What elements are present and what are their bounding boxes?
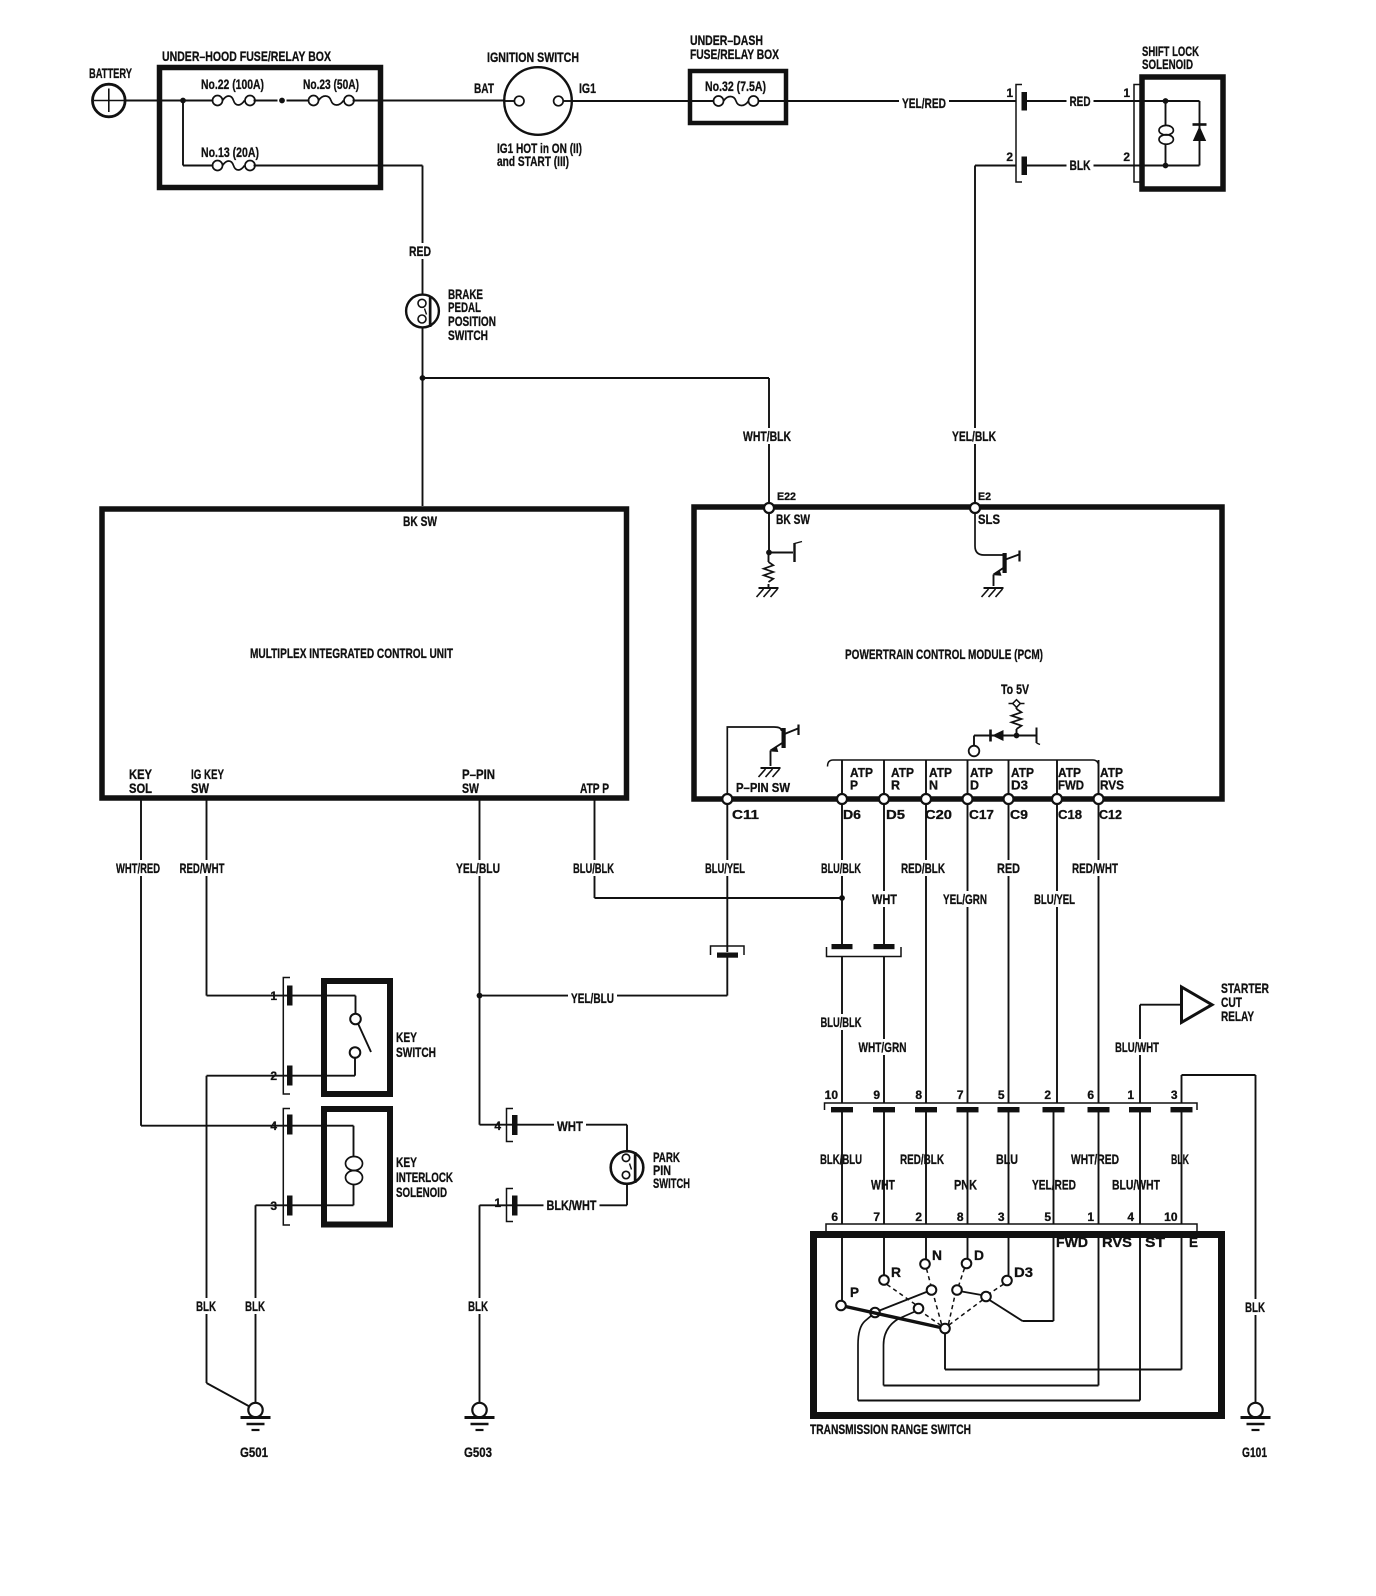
wire BLK/WHT <box>517 1184 627 1213</box>
connector bracket (key interlock) pins 4,3 <box>270 1109 292 1226</box>
wire YEL/BLU (P-PIN SW) <box>453 798 503 1125</box>
svg-text:RED/WHT: RED/WHT <box>1072 860 1118 876</box>
contact row2 e <box>981 1292 991 1302</box>
battery <box>89 65 132 117</box>
PCM pin C9 <box>1004 794 1029 822</box>
ground G503 <box>464 1403 495 1460</box>
wire battery to under-hood box <box>125 100 163 102</box>
svg-text:D3: D3 <box>1011 778 1028 793</box>
svg-text:1: 1 <box>1127 1088 1134 1102</box>
ground G101 <box>1241 1403 1271 1460</box>
contact row2 a <box>870 1308 880 1318</box>
svg-text:RED: RED <box>997 860 1020 876</box>
svg-text:BLU/WHT: BLU/WHT <box>1115 1039 1159 1055</box>
svg-text:D3: D3 <box>1014 1264 1033 1280</box>
svg-text:KEY: KEY <box>396 1154 417 1170</box>
solenoid coil L1 <box>1159 101 1173 166</box>
svg-text:RED/BLK: RED/BLK <box>901 860 945 876</box>
svg-text:10: 10 <box>825 1088 839 1102</box>
dashed link common-c <box>934 1295 942 1324</box>
svg-text:IG1: IG1 <box>579 80 596 96</box>
PCM pin E2 <box>970 491 1000 527</box>
wire pin 3 to contact D3 <box>1008 1231 1010 1275</box>
wire ATP bus <box>828 760 1099 767</box>
svg-text:4: 4 <box>494 1119 501 1133</box>
wire ATP P to bus <box>841 760 843 794</box>
fuse No.13 (20A) <box>183 101 259 171</box>
svg-text:BLK/WHT: BLK/WHT <box>547 1197 597 1213</box>
svg-text:C18: C18 <box>1058 807 1082 822</box>
internal tap (BK SW comparator) <box>769 542 802 563</box>
key interlock coil L2 <box>292 1126 363 1206</box>
svg-text:8: 8 <box>915 1088 922 1102</box>
svg-text:BLK: BLK <box>245 1298 265 1314</box>
wire solenoid pin 1 internal <box>1134 100 1166 102</box>
wire ST leg <box>858 1231 1140 1401</box>
wire pin 7 to contact R <box>883 1231 885 1275</box>
svg-text:BLK: BLK <box>1171 1151 1189 1167</box>
wire BLK (interlock to G501) <box>242 1205 288 1402</box>
ignition switch <box>474 49 596 169</box>
connector C1 (single, BLU/YEL) <box>711 946 745 957</box>
svg-text:INTERLOCK: INTERLOCK <box>396 1169 453 1185</box>
svg-text:10: 10 <box>1164 1210 1178 1224</box>
contact N <box>920 1247 942 1269</box>
dashed link N <box>927 1269 931 1285</box>
node (fuse box junction) <box>180 98 186 104</box>
svg-text:WHT: WHT <box>872 891 897 907</box>
svg-text:WHT/RED: WHT/RED <box>116 860 160 876</box>
contact common <box>940 1324 950 1334</box>
svg-text:6: 6 <box>1087 1088 1094 1102</box>
wire RED/BLK (C20) <box>897 804 948 1167</box>
svg-text:BAT: BAT <box>474 80 494 96</box>
svg-text:R: R <box>891 778 901 793</box>
svg-text:C20: C20 <box>925 807 952 822</box>
wire E leg <box>945 1231 1182 1370</box>
svg-text:C9: C9 <box>1010 807 1028 822</box>
svg-text:3: 3 <box>1171 1088 1178 1102</box>
svg-text:D: D <box>974 1247 984 1263</box>
link row2d to row2e <box>962 1292 982 1296</box>
svg-text:RELAY: RELAY <box>1221 1008 1254 1024</box>
wire BLK (park pin to G503) <box>465 1205 513 1402</box>
contact R <box>879 1264 901 1285</box>
svg-text:1: 1 <box>1087 1210 1094 1224</box>
svg-text:No.13 (20A): No.13 (20A) <box>201 144 259 160</box>
wire ignition switch IG1 to under-dash box <box>572 100 693 102</box>
svg-text:WHT/BLK: WHT/BLK <box>743 428 791 444</box>
svg-text:No.22 (100A): No.22 (100A) <box>201 76 264 92</box>
connector bracket (key switch) pins 1,2 <box>270 978 292 1095</box>
svg-text:BLU/BLK: BLU/BLK <box>821 1014 862 1030</box>
svg-text:D: D <box>970 778 979 793</box>
svg-text:UNDER–HOOD FUSE/RELAY BOX: UNDER–HOOD FUSE/RELAY BOX <box>162 48 331 64</box>
svg-text:RVS: RVS <box>1100 778 1124 793</box>
svg-text:ATP P: ATP P <box>580 780 609 796</box>
svg-text:BLK: BLK <box>1070 157 1091 173</box>
key interlock solenoid box <box>324 1109 453 1225</box>
PCM pin C20 <box>921 794 952 822</box>
svg-text:BLU/YEL: BLU/YEL <box>1034 891 1075 907</box>
svg-text:YEL/RED: YEL/RED <box>902 95 946 111</box>
connector C2 (pair, BLU/BLK & WHT) <box>827 945 902 957</box>
PCM pin C18 <box>1052 794 1082 822</box>
svg-text:WHT/RED: WHT/RED <box>1071 1151 1119 1167</box>
svg-text:C11: C11 <box>732 807 759 822</box>
connector (shift lock solenoid side) pins 1,2 <box>1123 85 1140 183</box>
connector bracket (park pin) pin 1 <box>494 1189 517 1222</box>
diode D2 (PCM internal) <box>974 730 1037 742</box>
svg-text:SWITCH: SWITCH <box>448 327 488 343</box>
svg-text:2: 2 <box>915 1210 922 1224</box>
dashed link R <box>887 1285 916 1305</box>
svg-text:YEL/BLU: YEL/BLU <box>456 860 500 876</box>
svg-text:1: 1 <box>1006 86 1013 100</box>
svg-text:POWERTRAIN CONTROL MODULE (PCM: POWERTRAIN CONTROL MODULE (PCM) <box>845 646 1043 662</box>
svg-text:G101: G101 <box>1242 1444 1267 1460</box>
in-line connector row 1 <box>825 1103 1198 1112</box>
key switch box <box>324 981 436 1094</box>
svg-text:6: 6 <box>831 1210 838 1224</box>
svg-text:2: 2 <box>1044 1088 1051 1102</box>
internal tap (ATP comparator) <box>1037 728 1041 745</box>
wire YEL/BLU to park pin connector <box>480 1124 513 1126</box>
connector bracket (park pin) pin 4 <box>494 1109 517 1142</box>
contact row2 b <box>914 1304 924 1314</box>
svg-text:SW: SW <box>462 780 480 796</box>
wire WHT/GRN to connector row 1 <box>856 957 910 1193</box>
svg-text:WHT/GRN: WHT/GRN <box>859 1039 907 1055</box>
fuse No.22 (100A) <box>163 76 278 106</box>
svg-text:BK SW: BK SW <box>403 513 438 529</box>
svg-text:SOL: SOL <box>129 780 152 796</box>
svg-text:5: 5 <box>1044 1210 1051 1224</box>
svg-text:SW: SW <box>191 780 210 796</box>
node E22 internal <box>766 550 772 556</box>
wire YEL/BLK (solenoid pin 2 to PCM E2) <box>949 166 1016 504</box>
svg-text:YEL/BLK: YEL/BLK <box>952 428 996 444</box>
svg-text:SWITCH: SWITCH <box>396 1044 436 1060</box>
svg-text:BLU/BLK: BLU/BLK <box>821 860 861 876</box>
svg-text:SOLENOID: SOLENOID <box>1142 56 1193 72</box>
svg-text:P: P <box>850 1284 859 1300</box>
contact D3 <box>1002 1264 1033 1285</box>
svg-text:2: 2 <box>1123 150 1130 164</box>
svg-text:G501: G501 <box>240 1444 268 1460</box>
brake pedal position switch <box>406 286 496 343</box>
ground (PCM internal, P-PIN SW) <box>761 767 781 769</box>
svg-text:R: R <box>891 1264 901 1280</box>
wire pin 2 to contact N <box>925 1231 927 1259</box>
label ATP P <box>850 765 873 793</box>
svg-text:BLU/WHT: BLU/WHT <box>1112 1177 1160 1193</box>
PCM pin D6 <box>837 794 861 822</box>
resistor R1 (BK SW pull-down) <box>768 553 770 563</box>
wire YEL/GRN (C17) <box>940 804 990 1193</box>
svg-text:5: 5 <box>998 1088 1005 1102</box>
svg-text:FWD: FWD <box>1056 1234 1088 1250</box>
node A <box>420 375 426 381</box>
wire YEL/RED <box>784 95 1016 111</box>
wire BLU/BLK (ATP P from MICU) <box>570 798 842 898</box>
PCM pin E22 <box>764 491 811 527</box>
wire fuse box to ignition switch BAT <box>381 100 505 102</box>
svg-text:To 5V: To 5V <box>1001 681 1030 697</box>
svg-text:P: P <box>850 778 858 793</box>
svg-text:TRANSMISSION RANGE SWITCH: TRANSMISSION RANGE SWITCH <box>810 1421 971 1437</box>
svg-text:4: 4 <box>1127 1210 1134 1224</box>
fuse No.23 (50A) <box>287 76 382 106</box>
row 1 pin numbers <box>825 1088 1178 1102</box>
dashed link D3 <box>990 1284 1004 1293</box>
transmission range switch box <box>810 1235 1222 1438</box>
wire BLU/YEL (C18) <box>1029 804 1079 1193</box>
svg-text:1: 1 <box>1123 86 1130 100</box>
connector (shift lock harness side) pins 1,2 <box>1006 85 1026 183</box>
PCM pin C12 <box>1094 794 1123 822</box>
wire RED <box>1027 93 1135 109</box>
contact row2 c <box>927 1285 937 1295</box>
svg-text:FWD: FWD <box>1058 778 1084 793</box>
svg-text:C12: C12 <box>1099 807 1122 822</box>
svg-text:YEL/BLU: YEL/BLU <box>571 990 614 1006</box>
ground (PCM internal, SLS) <box>984 587 1004 589</box>
wire WHT/RED (KEY SOL) <box>113 798 163 1126</box>
svg-text:BK SW: BK SW <box>776 511 811 527</box>
fuse No.32 (7.5A) <box>692 78 784 106</box>
svg-text:2: 2 <box>1006 150 1013 164</box>
wire ATP D3 to bus <box>1008 760 1010 794</box>
wire pin 6 to contact P <box>841 1231 843 1300</box>
svg-text:MULTIPLEX INTEGRATED CONTROL U: MULTIPLEX INTEGRATED CONTROL UNIT <box>250 645 453 661</box>
svg-text:KEY: KEY <box>396 1029 417 1045</box>
wire ATP FWD to bus <box>1056 760 1058 794</box>
label ATP D3 <box>1011 765 1034 793</box>
transistor Q2 (P-PIN SW) <box>727 725 798 795</box>
svg-text:FUSE/RELAY BOX: FUSE/RELAY BOX <box>690 46 779 62</box>
wire E22 internal <box>768 513 770 553</box>
wire BK SW to MICU <box>422 378 424 506</box>
wire BLK (E to G101) <box>1168 1075 1268 1403</box>
svg-text:SWITCH: SWITCH <box>653 1175 690 1191</box>
svg-text:BLK: BLK <box>196 1298 216 1314</box>
under-hood fuse/relay box <box>160 48 381 188</box>
in-line connector row 2 <box>826 1224 1197 1231</box>
svg-text:D5: D5 <box>886 807 905 822</box>
svg-text:SLS: SLS <box>978 511 1000 527</box>
wire BLU/YEL (C11) <box>702 804 748 952</box>
label ATP D <box>970 765 993 793</box>
wire WHT D5 column <box>869 804 900 945</box>
svg-text:E2: E2 <box>978 491 991 503</box>
svg-text:9: 9 <box>873 1088 880 1102</box>
wire BLU/WHT (starter cut relay) <box>1109 1005 1182 1193</box>
node R2/D2 <box>1014 733 1020 739</box>
svg-text:SOLENOID: SOLENOID <box>396 1184 447 1200</box>
ground (PCM internal, BK SW) <box>759 587 779 589</box>
under-dash fuse/relay box <box>690 32 786 123</box>
node solenoid bottom <box>1163 163 1169 169</box>
svg-text:C17: C17 <box>969 807 994 822</box>
wire WHT <box>517 1118 627 1151</box>
svg-text:ST: ST <box>1145 1234 1166 1250</box>
wire E2 internal <box>975 513 1003 555</box>
wiper arm (thick) <box>846 1307 941 1328</box>
svg-text:8: 8 <box>957 1210 964 1224</box>
svg-text:BLU/BLK: BLU/BLK <box>573 860 614 876</box>
svg-text:E: E <box>1189 1234 1198 1250</box>
contact row2 d <box>952 1285 962 1295</box>
dashed link common-b <box>923 1313 942 1326</box>
node YEL/BLU join <box>477 993 483 999</box>
svg-text:7: 7 <box>957 1088 964 1102</box>
wire BLU/BLK D6 column <box>818 804 864 945</box>
resistor R2 (ATP pull-up) <box>1012 707 1022 736</box>
svg-text:IGNITION SWITCH: IGNITION SWITCH <box>487 49 579 65</box>
svg-text:RED/WHT: RED/WHT <box>180 860 225 876</box>
wire BLU/BLK to connector row 1 <box>817 957 865 1167</box>
svg-text:RED/BLK: RED/BLK <box>900 1151 944 1167</box>
svg-text:N: N <box>932 1247 942 1263</box>
wire ATP D to bus <box>967 760 969 794</box>
wire brake switch to node A <box>422 327 424 378</box>
node (ATP sense) <box>969 736 980 757</box>
svg-text:BLK: BLK <box>468 1298 488 1314</box>
shift lock solenoid <box>1142 43 1223 189</box>
svg-text:G503: G503 <box>464 1444 492 1460</box>
dashed link D <box>959 1268 965 1285</box>
wire R1 to ground <box>768 584 770 588</box>
wire RED/WHT (C12) <box>1068 804 1122 1167</box>
svg-text:7: 7 <box>873 1210 880 1224</box>
node ATP P join <box>839 895 845 901</box>
svg-text:PNK: PNK <box>954 1177 977 1193</box>
svg-text:BLK: BLK <box>1245 1299 1265 1315</box>
wire WHT/BLK <box>423 378 795 503</box>
svg-text:YEL/GRN: YEL/GRN <box>943 891 987 907</box>
svg-text:E22: E22 <box>777 491 796 503</box>
svg-text:WHT: WHT <box>557 1118 583 1134</box>
row 2 pin numbers <box>831 1210 1178 1224</box>
svg-text:N: N <box>929 778 938 793</box>
svg-text:and START (III): and START (III) <box>497 153 569 169</box>
wire ATP R to bus <box>883 760 885 794</box>
label ATP FWD <box>1058 765 1084 793</box>
wire solenoid pin 2 internal <box>1134 165 1166 167</box>
powertrain control module U2 <box>694 507 1222 799</box>
To 5V supply tap <box>1001 681 1030 707</box>
svg-text:1: 1 <box>494 1196 501 1210</box>
svg-text:BATTERY: BATTERY <box>89 65 132 81</box>
svg-text:RED: RED <box>1070 93 1091 109</box>
svg-text:No.23 (50A): No.23 (50A) <box>303 76 359 92</box>
svg-text:BLU: BLU <box>996 1151 1018 1167</box>
contact D <box>962 1247 984 1268</box>
dashed link common-d <box>949 1295 956 1324</box>
wire FWD leg <box>990 1231 1054 1321</box>
wire RED (fuse No.13 to brake pedal switch) <box>254 166 435 296</box>
PCM pin C17 <box>963 794 995 822</box>
diode D1 (flyback) <box>1166 101 1207 166</box>
svg-text:BLU/YEL: BLU/YEL <box>705 860 745 876</box>
wire RVS leg <box>884 1231 1099 1386</box>
wire BLK <box>1027 157 1135 173</box>
label ATP R <box>891 765 914 793</box>
wire pin 8 to contact D <box>967 1231 969 1258</box>
multiplex integrated control unit U1 <box>102 509 627 798</box>
label ATP RVS <box>1100 765 1124 793</box>
contact P <box>836 1284 859 1310</box>
dashed link common-e <box>949 1300 983 1325</box>
wire WHT/RED to interlock pin 4 <box>141 1125 288 1127</box>
svg-text:3: 3 <box>998 1210 1005 1224</box>
starter cut relay <box>1182 980 1270 1024</box>
svg-text:RVS: RVS <box>1102 1234 1132 1250</box>
PCM pin C11 <box>722 794 759 822</box>
key switch contacts <box>292 996 371 1076</box>
svg-text:D6: D6 <box>843 807 861 822</box>
node solenoid top <box>1163 98 1169 104</box>
svg-text:No.32 (7.5A): No.32 (7.5A) <box>705 78 766 94</box>
wire BLK (key switch to G501) <box>193 1076 288 1407</box>
svg-text:P–PIN SW: P–PIN SW <box>736 780 791 795</box>
wire RED (C9) <box>993 804 1023 1167</box>
label ATP N <box>929 765 952 793</box>
link row2a to row2c <box>880 1292 928 1311</box>
wire RED/WHT (IG KEY SW) <box>177 798 228 996</box>
PCM pin D5 <box>879 794 905 822</box>
svg-text:RED: RED <box>409 243 431 259</box>
wire RED/WHT to key switch pin 1 <box>207 995 288 997</box>
transistor Q1 (SLS driver) <box>994 551 1020 587</box>
labels FWD RVS ST E <box>1056 1234 1198 1250</box>
ground G501 <box>240 1403 271 1460</box>
wire ATP RVS to bus <box>1098 760 1100 794</box>
svg-text:BLK/BLU: BLK/BLU <box>820 1151 862 1167</box>
wires between connector rows <box>842 1112 1182 1224</box>
wire YEL/BLU (C11 to P-PIN column) <box>480 957 728 1006</box>
wire ATP N to bus <box>925 760 927 794</box>
park pin switch <box>611 1149 690 1191</box>
